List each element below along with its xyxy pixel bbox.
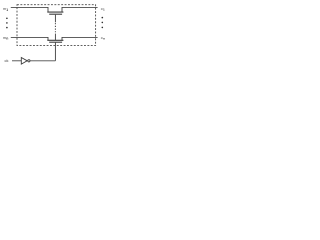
wire row1 left [11,6,49,8]
svg-text:o1: o1 [101,7,105,12]
wire row2 right [62,36,98,38]
dashed module box [17,5,96,46]
node dots left ellipsis [6,18,8,29]
dotted gate-line continuation (ellipsis) [54,23,56,32]
wire gate-line into Q2 [54,34,56,40]
svg-text:mn: mn [3,36,8,41]
inverter U1 [21,58,30,65]
node dots right ellipsis [102,17,104,28]
svg-text:m1: m1 [3,7,8,12]
wire row2 left [11,36,49,38]
wire inverter input [12,60,21,62]
wire row1 right [62,6,98,8]
wire gate lead down from Q2 through box edge [54,43,56,61]
svg-text:on: on [101,36,105,41]
svg-text:ck: ck [5,58,9,63]
transistor Q2 [47,37,63,42]
transistor Q1 [47,7,63,22]
wire inverter output run [30,60,55,62]
